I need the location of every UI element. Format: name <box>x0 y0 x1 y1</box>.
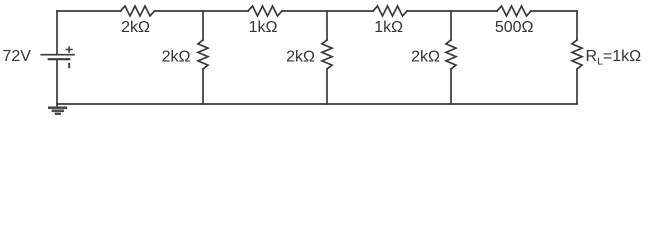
wire top rail segment left <box>57 10 121 12</box>
resistor R1 2k ohm series <box>121 6 155 16</box>
wire left branch lower <box>56 60 58 106</box>
svg-text:72V: 72V <box>3 48 32 65</box>
wire shunt branch 3 lower <box>450 69 452 104</box>
voltage source V1 minus mark <box>68 64 70 68</box>
wire shunt branch 1 upper <box>202 11 204 40</box>
svg-text:2kΩ: 2kΩ <box>121 19 150 36</box>
resistor R7 2k ohm shunt 3 <box>446 40 456 69</box>
resistor R5 2k ohm shunt 1 <box>198 40 208 69</box>
wire shunt branch 2 upper <box>326 11 328 40</box>
wire top rail segment node A <box>155 10 249 12</box>
wire shunt branch 3 upper <box>450 11 452 40</box>
wire right branch lower <box>576 69 578 104</box>
voltage source V1 72V battery top plate <box>41 54 74 56</box>
resistor R2 1k ohm series <box>248 6 282 16</box>
svg-text:2kΩ: 2kΩ <box>411 48 440 65</box>
wire top rail segment node C <box>407 10 497 12</box>
resistor R4 500 ohm series <box>497 6 531 16</box>
svg-text:2kΩ: 2kΩ <box>162 48 191 65</box>
resistor R3 1k ohm series <box>373 6 407 16</box>
wire shunt branch 2 lower <box>326 69 328 104</box>
resistor R6 2k ohm shunt 2 <box>322 40 332 69</box>
svg-text:1kΩ: 1kΩ <box>374 19 403 36</box>
wire top rail segment node B <box>282 10 373 12</box>
wire bottom rail <box>57 103 577 105</box>
wire shunt branch 1 lower <box>202 69 204 104</box>
svg-text:1kΩ: 1kΩ <box>249 19 278 36</box>
wire top rail segment right <box>531 10 577 12</box>
wire left branch upper <box>56 11 58 54</box>
ground symbol <box>48 106 67 115</box>
svg-text:RL=1kΩ: RL=1kΩ <box>586 48 642 68</box>
voltage source V1 72V battery bottom plate <box>49 58 70 60</box>
resistor RL load 1k ohm <box>572 40 582 69</box>
voltage source V1 plus sign <box>66 47 72 52</box>
svg-text:2kΩ: 2kΩ <box>286 48 315 65</box>
svg-text:500Ω: 500Ω <box>495 19 534 36</box>
wire right branch upper <box>576 11 578 40</box>
